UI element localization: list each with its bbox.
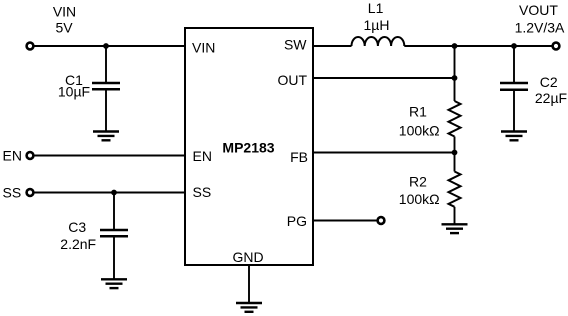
junction SS/C3: [111, 190, 117, 196]
resistor R2: [449, 172, 461, 207]
wire IC GND pin to ground: [248, 265, 250, 303]
svg-text:GND: GND: [232, 249, 263, 265]
svg-text:MP2183: MP2183: [222, 140, 274, 156]
svg-text:FB: FB: [290, 149, 308, 165]
wire C2 bottom lead: [513, 90, 515, 132]
capacitor C3: [100, 230, 128, 236]
label C3 2.2nF: [60, 219, 96, 252]
wire C1 top lead: [105, 46, 107, 83]
svg-text:VIN: VIN: [53, 4, 76, 20]
node label VIN 5V: [53, 4, 76, 36]
wire SW node down to R1: [454, 46, 456, 101]
ground IC GND: [236, 303, 262, 312]
capacitor C2: [500, 83, 528, 90]
junction SW node / R1 branch: [452, 43, 458, 49]
wire IC OUT pin to R1 branch: [313, 77, 455, 79]
terminal EN input: [27, 152, 34, 159]
wire C1 bottom lead: [105, 89, 107, 131]
junction C2 branch: [511, 43, 517, 49]
junction OUT/R1: [452, 75, 458, 81]
svg-text:EN: EN: [3, 148, 22, 164]
svg-text:C3: C3: [68, 219, 86, 235]
ground C3: [101, 279, 127, 288]
wire IC SW pin to L1: [313, 45, 352, 47]
svg-text:100kΩ: 100kΩ: [399, 191, 440, 207]
wire FB node to R2: [454, 153, 456, 172]
wire L1 to VOUT terminal: [404, 45, 551, 47]
wire IC PG pin to PG terminal: [313, 220, 377, 222]
svg-text:5V: 5V: [55, 20, 73, 36]
wire C3 bottom lead: [113, 236, 115, 279]
svg-text:PG: PG: [287, 213, 307, 229]
svg-text:SW: SW: [284, 37, 307, 53]
svg-text:100kΩ: 100kΩ: [399, 122, 440, 138]
label R2 100kΩ: [399, 173, 440, 206]
svg-text:22µF: 22µF: [535, 90, 567, 106]
label C2 22µF: [535, 74, 567, 106]
svg-text:VIN: VIN: [192, 40, 215, 56]
wire C2 top lead: [513, 46, 515, 83]
ground C2: [501, 132, 527, 141]
label R1 100kΩ: [399, 103, 440, 138]
wire VIN terminal to IC VIN pin: [35, 45, 186, 47]
svg-text:SS: SS: [193, 184, 212, 200]
inductor L1: [352, 37, 405, 46]
wire SS terminal to IC SS pin: [35, 192, 186, 194]
terminal SS input: [27, 189, 34, 196]
wire EN terminal to IC EN pin: [35, 155, 186, 157]
svg-text:C2: C2: [540, 74, 558, 90]
ground C1: [93, 132, 119, 141]
IC U1 MP2183 body: [185, 28, 313, 265]
svg-text:OUT: OUT: [277, 72, 307, 88]
node label VOUT 1.2V/3A: [515, 2, 565, 35]
svg-text:1.2V/3A: 1.2V/3A: [515, 19, 565, 35]
svg-text:SS: SS: [3, 185, 22, 201]
junction FB/R1/R2: [452, 150, 458, 156]
capacitor C1: [92, 83, 120, 89]
terminal PG output: [378, 217, 385, 224]
label C1 10µF: [58, 72, 90, 100]
svg-text:R1: R1: [409, 103, 427, 119]
svg-text:R2: R2: [409, 173, 427, 189]
label L1 1µH: [364, 0, 390, 33]
terminal VIN input: [27, 43, 34, 50]
junction VIN/C1: [103, 43, 109, 49]
svg-text:1µH: 1µH: [364, 17, 390, 33]
svg-text:2.2nF: 2.2nF: [60, 236, 96, 252]
wire IC FB pin to divider: [313, 152, 455, 154]
svg-text:L1: L1: [368, 0, 384, 16]
wire R2 bottom lead: [454, 207, 456, 225]
svg-text:10µF: 10µF: [58, 84, 90, 100]
svg-text:VOUT: VOUT: [519, 2, 558, 18]
wire C3 top lead: [113, 193, 115, 231]
wire R1 to FB node: [454, 137, 456, 153]
ground R2: [442, 224, 468, 233]
resistor R1: [449, 101, 461, 137]
svg-text:EN: EN: [193, 148, 212, 164]
terminal VOUT: [553, 43, 560, 50]
